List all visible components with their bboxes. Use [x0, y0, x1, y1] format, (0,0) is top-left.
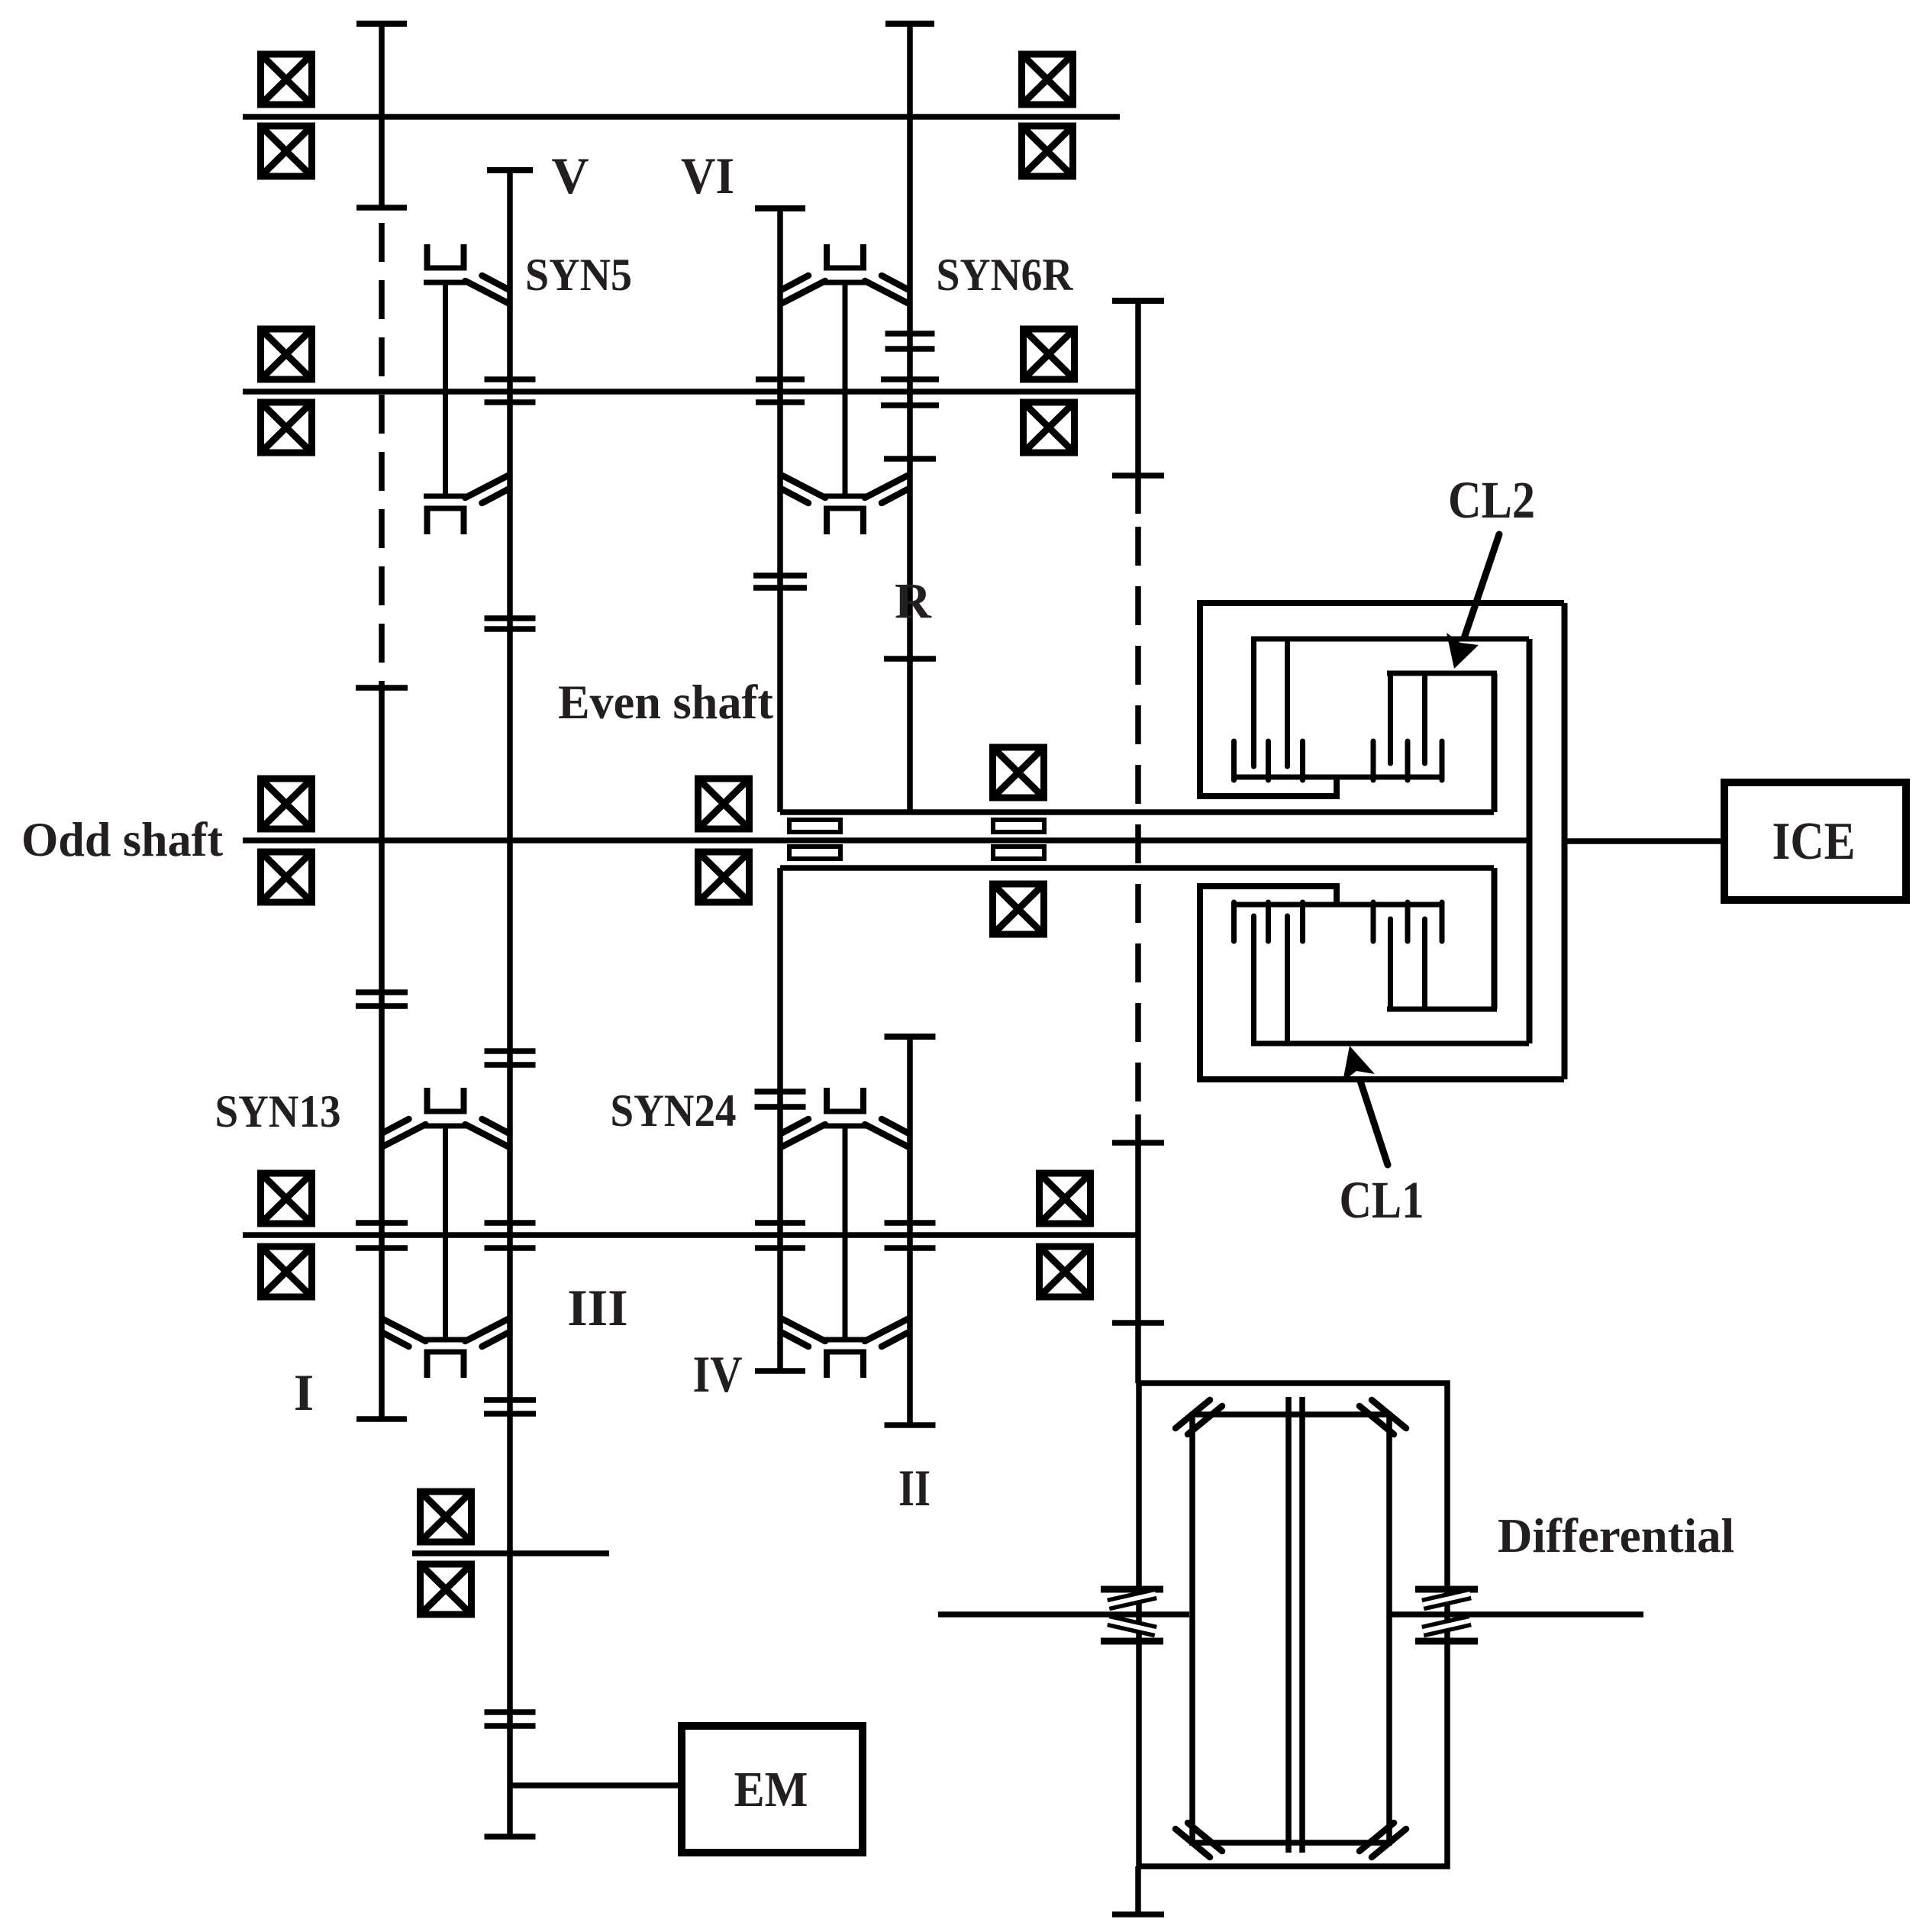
- svg-text:CL2: CL2: [1448, 471, 1535, 529]
- differential input below box: [1135, 1866, 1141, 1914]
- clutch CL1 inner drum plate (odd shaft side): [1251, 916, 1529, 1043]
- svg-text:Differential: Differential: [1498, 1509, 1734, 1563]
- wire: gear line to EM box: [510, 1782, 682, 1788]
- EM box: [682, 1726, 863, 1853]
- gear V (top cap and stem): [507, 170, 513, 379]
- svg-text:II: II: [898, 1459, 931, 1517]
- gear I shaft line: [379, 710, 385, 1419]
- differential bevel hatch bottom-left: [1176, 1829, 1210, 1857]
- svg-text:III: III: [567, 1279, 627, 1337]
- clutch housing outer drum (CL1 half): [1200, 883, 1564, 1079]
- clutch CL2 inner drum plate (odd shaft side): [1251, 639, 1529, 766]
- tick on plane I centerline: [356, 685, 408, 691]
- differential input shaft: [1135, 1114, 1141, 1383]
- bearing pair on S1 right: [1022, 54, 1073, 176]
- svg-text:CL1: CL1: [1340, 1171, 1424, 1229]
- wire: odd shaft carrier plate V2: [1527, 639, 1533, 1043]
- gear I bottom cap: [356, 1416, 407, 1422]
- svg-text:ICE: ICE: [1772, 812, 1856, 871]
- arrow to CL2: [1447, 534, 1499, 669]
- bearing pair on S4 left: [261, 1173, 312, 1297]
- gear III rim bars at S4: [485, 1220, 536, 1226]
- shaft: differential axle right: [1390, 1611, 1643, 1618]
- gear R bottom cap: [884, 656, 936, 662]
- synchronizer SYN5: [424, 244, 508, 534]
- svg-text:SYN6R: SYN6R: [937, 250, 1074, 300]
- bearing pair on S2 right: [1024, 329, 1075, 453]
- clutch CL1 hub plate (odd shaft side): [1387, 868, 1497, 1009]
- mesh marks below gear V: [485, 615, 536, 621]
- differential bevel hatch bottom-right: [1372, 1829, 1406, 1857]
- differential housing box: [1139, 1383, 1447, 1866]
- svg-text:Even shaft: Even shaft: [558, 676, 773, 729]
- shaft: odd input shaft S3: [243, 837, 1529, 843]
- gear IV rim bars at S4: [755, 1220, 805, 1226]
- bearing pair on EM shaft: [421, 1492, 472, 1614]
- svg-text:I: I: [294, 1363, 314, 1421]
- arrow to CL1: [1343, 1046, 1388, 1165]
- svg-text:SYN24: SYN24: [611, 1085, 737, 1136]
- mesh marks below EM shaft: [485, 1709, 536, 1715]
- bearing pair on S2 left: [261, 329, 312, 453]
- svg-text:SYN5: SYN5: [525, 250, 632, 300]
- wire: clutch to ICE: [1567, 838, 1723, 844]
- svg-text:SYN13: SYN13: [215, 1086, 341, 1137]
- bearing pair on S4 right: [1040, 1173, 1091, 1297]
- bearing pair on odd shaft left: [261, 779, 312, 902]
- svg-text:V: V: [551, 147, 589, 205]
- shaft: differential axle left: [938, 1611, 1189, 1618]
- synchronizer SYN24: [782, 1088, 908, 1378]
- wire: CL1 hub to hollow shaft: [1492, 868, 1498, 1009]
- mesh marks on gear III line: [485, 1048, 536, 1054]
- gear V rim bars at S2: [485, 376, 536, 382]
- svg-text:R: R: [895, 573, 932, 629]
- shaft: upper countershaft S2: [243, 389, 1137, 395]
- bearing pair on odd shaft middle: [698, 779, 750, 902]
- mesh marks on R line above S2: [885, 331, 935, 337]
- ICE box: [1724, 782, 1906, 900]
- final drive gear on S2 right end: [1135, 301, 1141, 514]
- gear II rim bars at S4: [885, 1220, 936, 1226]
- gear IV shaft line: [777, 868, 783, 1371]
- gear plane centerline I (dashed): [379, 223, 385, 710]
- svg-text:EM: EM: [734, 1762, 808, 1817]
- shaft: hollow even shaft bottom wall: [780, 865, 1494, 871]
- gear IV bottom cap: [755, 1368, 805, 1374]
- clutch CL2 friction plate carrier (outer comb): [1231, 741, 1444, 780]
- mesh marks above EM shaft: [484, 1397, 536, 1403]
- synchronizer SYN13: [383, 1088, 508, 1378]
- gear VI top cap and stem: [777, 208, 783, 812]
- gear R plane line (top cap to hollow shaft): [907, 24, 913, 812]
- axle coupling right: [1415, 1589, 1478, 1641]
- mesh marks on gear IV line: [755, 1089, 806, 1095]
- bearing pair on hollow even shaft: [993, 747, 1044, 934]
- shaft: top output shaft S1: [243, 114, 1120, 120]
- spline bearing lower left: [789, 847, 840, 859]
- shaft: hollow even shaft top wall: [780, 809, 1494, 815]
- differential cage inner frame: [1192, 1397, 1389, 1853]
- gear V / gear III / EM shaft line: [507, 379, 513, 1837]
- differential pinion shaft pair: [1285, 1397, 1292, 1853]
- svg-text:IV: IV: [693, 1345, 743, 1403]
- clutch housing outer drum (CL2 half): [1200, 603, 1564, 799]
- bearing pair on S1 left: [261, 54, 312, 176]
- mesh marks on gear I line: [356, 989, 408, 995]
- spline bearing upper right: [993, 820, 1044, 832]
- final drive pinion ticks: [1112, 1140, 1164, 1146]
- svg-text:VI: VI: [681, 147, 734, 205]
- clutch CL1 friction plate carrier (outer comb): [1231, 902, 1444, 941]
- spline bearing upper left: [789, 820, 840, 832]
- EM line bottom cap: [485, 1834, 536, 1840]
- spline bearing lower right: [993, 847, 1044, 859]
- gear R top cap: [884, 456, 936, 462]
- shaft: EM intermediate shaft S5: [412, 1550, 609, 1556]
- differential plane centerline (dashed): [1135, 527, 1141, 1114]
- gear VI rim bars at S2: [756, 376, 805, 382]
- gear II shaft line: [907, 1037, 913, 1425]
- differential bevel hatch top-right: [1372, 1400, 1406, 1428]
- gear I rim bars at S4: [356, 1220, 408, 1226]
- wire: clutch drum right wall V3: [1562, 603, 1568, 1079]
- differential bevel hatch top-left: [1176, 1400, 1210, 1428]
- gear on S1 at plane I (top): [379, 24, 385, 208]
- synchronizer SYN6R: [782, 244, 908, 534]
- svg-text:Odd shaft: Odd shaft: [21, 813, 223, 866]
- clutch CL2 hub plate (even shaft side): [1387, 673, 1497, 812]
- axle coupling left: [1101, 1589, 1163, 1641]
- mesh marks below gear VI: [753, 573, 807, 579]
- wire: CL2 hub to hollow shaft: [1492, 673, 1498, 812]
- R line rim bars at S2: [881, 376, 939, 382]
- shaft: lower countershaft S4: [243, 1232, 1137, 1238]
- gear II bottom cap: [885, 1422, 936, 1428]
